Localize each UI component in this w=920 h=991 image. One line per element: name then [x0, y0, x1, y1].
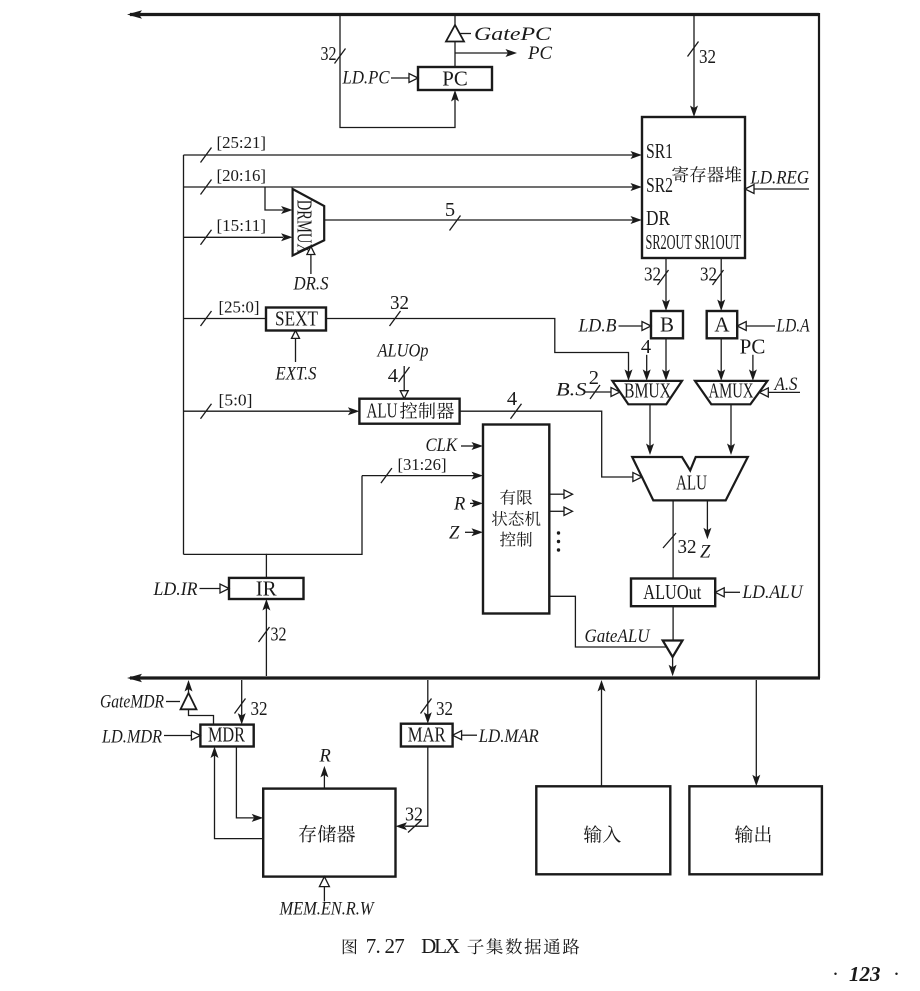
- svg-text:R: R: [319, 747, 331, 767]
- svg-text:32: 32: [700, 264, 717, 286]
- bus width 32 label at PC input: [335, 49, 346, 64]
- wire IR fields left rail: [183, 155, 185, 554]
- svg-text:DLX: DLX: [421, 934, 460, 958]
- svg-text:32: 32: [699, 46, 716, 68]
- svg-text:[5:0]: [5:0]: [219, 391, 253, 410]
- wire B.S control: [584, 391, 611, 393]
- svg-text:32: 32: [644, 264, 661, 286]
- svg-text:32: 32: [271, 624, 287, 646]
- wire input device to bus: [601, 687, 603, 786]
- svg-text:DR: DR: [646, 206, 670, 230]
- svg-text:SR2OUT SR1OUT: SR2OUT SR1OUT: [646, 230, 742, 254]
- wire BMUX to ALU: [649, 404, 651, 448]
- svg-text:[31:26]: [31:26]: [398, 455, 447, 474]
- svg-text:ALU: ALU: [676, 471, 707, 495]
- unit ALU controller ALU控制器: [359, 399, 459, 424]
- svg-text:R: R: [453, 495, 465, 515]
- svg-text:A: A: [714, 313, 730, 337]
- wire ALUOp control (4): [403, 366, 405, 391]
- svg-text:LD.MDR: LD.MDR: [101, 728, 162, 748]
- svg-text:LD.IR: LD.IR: [153, 580, 198, 600]
- svg-text:PC: PC: [740, 335, 766, 359]
- wire LD.MDR control: [164, 735, 191, 737]
- svg-text:7. 27: 7. 27: [366, 934, 405, 958]
- gate driver GateMDR triangle: [181, 693, 197, 709]
- register MAR: [401, 724, 453, 747]
- wire LD.ALU control: [724, 591, 740, 593]
- svg-text:2: 2: [589, 367, 599, 389]
- svg-text:LD.PC: LD.PC: [342, 69, 390, 89]
- svg-text:SEXT: SEXT: [275, 307, 318, 331]
- wire ALU to ALUOut (32): [672, 500, 674, 578]
- svg-text:32: 32: [390, 292, 409, 314]
- wire PC to AMUX: [752, 355, 754, 374]
- register A: [707, 311, 738, 338]
- wire bus to MDR (32): [241, 680, 243, 718]
- svg-text:[20:16]: [20:16]: [217, 166, 267, 185]
- wire bus to MAR (32): [427, 680, 429, 717]
- svg-text:[15:11]: [15:11]: [217, 216, 267, 235]
- svg-text:32: 32: [251, 698, 268, 720]
- mux AMUX: [695, 381, 767, 404]
- svg-text:MAR: MAR: [408, 723, 446, 747]
- svg-text:LD.ALU: LD.ALU: [742, 583, 804, 603]
- svg-text:GatePC: GatePC: [474, 25, 552, 45]
- wire [5:0] to ALU controller: [184, 410, 351, 412]
- wire LD.B control: [619, 325, 643, 327]
- wire LD.PC control: [391, 77, 410, 79]
- svg-text:PC: PC: [527, 44, 553, 64]
- wire ALU controller to ALU (4): [460, 411, 633, 477]
- unit output device 输出: [689, 786, 822, 874]
- svg-text:ALUOut: ALUOut: [643, 580, 701, 604]
- svg-text:4: 4: [641, 336, 651, 358]
- wire PC output tap: [455, 52, 508, 54]
- svg-text:BMUX: BMUX: [624, 379, 671, 403]
- gate driver GatePC triangle: [446, 25, 464, 42]
- wire memory R output: [323, 773, 325, 789]
- svg-text:5: 5: [445, 199, 455, 221]
- wire SEXT to BMUX (32): [326, 319, 629, 375]
- register IR: [229, 578, 304, 599]
- wire MEM.EN.R.W control: [323, 885, 325, 901]
- wire IR to [31:26]: [266, 476, 362, 555]
- wire GateMDR triangle to MDR: [189, 709, 214, 724]
- svg-text:PC: PC: [442, 67, 468, 91]
- wire MDR to memory: [236, 747, 254, 818]
- wire FSM GateALU signal: [549, 596, 666, 647]
- wire PC to GatePC to bus: [454, 16, 456, 26]
- unit SEXT: [266, 308, 326, 331]
- wire Z input: [465, 531, 474, 533]
- register file 寄存器堆: [642, 117, 745, 258]
- wire DR.S control: [310, 255, 312, 274]
- svg-text:B: B: [660, 313, 674, 337]
- svg-text:DRMUX: DRMUX: [293, 200, 317, 254]
- wire B to BMUX: [665, 338, 667, 374]
- wire [15:11] to DRMUX: [184, 236, 284, 238]
- wire SR2OUT to B (32): [665, 258, 667, 304]
- wire GateALU to bus: [672, 657, 674, 669]
- wire [25:0] to SEXT: [184, 318, 267, 320]
- gate driver GateALU triangle: [663, 641, 683, 658]
- wire [20:16] branch to DRMUX: [265, 187, 283, 210]
- svg-text:32: 32: [678, 536, 697, 558]
- wire bus to IR (32): [265, 606, 267, 676]
- wire LD.A control: [746, 325, 775, 327]
- unit memory 存储器: [263, 789, 395, 877]
- wire AMUX to ALU: [730, 404, 732, 448]
- svg-text:ALUOp: ALUOp: [376, 342, 429, 362]
- wire FSM control output 1: [549, 493, 564, 495]
- svg-text:ALU: ALU: [367, 399, 398, 423]
- wire ALUOut to GateALU: [672, 606, 674, 645]
- register PC: [418, 67, 492, 90]
- svg-text:4: 4: [507, 388, 517, 410]
- svg-text:EXT.S: EXT.S: [275, 365, 317, 385]
- wire bus to register file (32): [693, 16, 695, 110]
- wire FSM control output 2: [549, 510, 564, 512]
- svg-text:[25:0]: [25:0]: [219, 298, 260, 317]
- wire IR to field rail: [184, 554, 267, 578]
- wire constant 4 to BMUX: [646, 355, 648, 374]
- wire LD.MAR control: [462, 734, 478, 736]
- wire right frame (bus loop right side): [818, 13, 820, 678]
- svg-text:LD.REG: LD.REG: [750, 169, 809, 189]
- wire A.S control: [768, 391, 800, 393]
- svg-text:B.S: B.S: [556, 381, 587, 401]
- wire LD.IR control: [200, 588, 221, 590]
- bus width 32 label at register file input: [688, 42, 699, 57]
- svg-text:SR1: SR1: [646, 139, 673, 163]
- alu ALU: [632, 457, 748, 500]
- mux DRMUX: [293, 189, 325, 256]
- svg-text:32: 32: [321, 43, 337, 65]
- FSM more outputs dots: [557, 531, 560, 534]
- svg-text:Z: Z: [449, 524, 460, 544]
- svg-text:GateMDR: GateMDR: [100, 693, 164, 713]
- wire CLK input: [461, 445, 474, 447]
- wire MAR to memory (32): [405, 747, 428, 827]
- svg-text:Z: Z: [700, 543, 711, 563]
- svg-text:32: 32: [405, 804, 423, 826]
- wire bus to output device: [755, 680, 757, 779]
- svg-text:123: 123: [849, 962, 881, 986]
- wire LD.REG control: [753, 188, 809, 190]
- svg-text:·: ·: [832, 962, 839, 986]
- wire SR1OUT to A (32): [720, 258, 722, 304]
- bus bottom (system bus): [130, 676, 820, 679]
- wire DRMUX to DR (5): [324, 219, 633, 221]
- svg-text:LD.B: LD.B: [578, 317, 617, 337]
- svg-text:GateALU: GateALU: [585, 627, 651, 647]
- svg-text:MDR: MDR: [208, 723, 245, 747]
- svg-text:4: 4: [388, 365, 398, 387]
- svg-text:IR: IR: [256, 577, 277, 601]
- wire memory to MDR: [215, 754, 264, 839]
- wire R input: [470, 502, 474, 504]
- register ALUOut: [631, 579, 715, 607]
- svg-text:·: ·: [893, 962, 900, 986]
- svg-text:32: 32: [436, 698, 453, 720]
- wire A to AMUX: [720, 338, 722, 374]
- svg-text:SR2: SR2: [646, 173, 673, 197]
- wire GateMDR tick: [166, 701, 180, 703]
- svg-text:LD.MAR: LD.MAR: [478, 727, 539, 747]
- svg-text:DR.S: DR.S: [293, 275, 329, 295]
- svg-text:[25:21]: [25:21]: [217, 133, 267, 152]
- unit finite state machine control 有限状态机控制: [483, 425, 549, 614]
- register MDR: [200, 725, 253, 747]
- unit input device 输入: [536, 786, 670, 874]
- wire GateMDR to bus: [188, 687, 190, 693]
- bus top (system bus): [130, 13, 819, 16]
- svg-text:MEM.EN.R.W: MEM.EN.R.W: [279, 900, 375, 920]
- wire [20:16] to SR2: [184, 186, 634, 188]
- register B: [651, 311, 683, 338]
- svg-text:CLK: CLK: [426, 436, 459, 456]
- wire ALU Z flag: [706, 500, 708, 532]
- mux BMUX: [612, 381, 682, 404]
- wire [31:26] to FSM: [362, 475, 474, 477]
- svg-text:AMUX: AMUX: [709, 379, 754, 403]
- wire bus to PC input (32): [340, 16, 455, 128]
- wire EXT.S control: [295, 338, 297, 362]
- caption 图 7.27 DLX 子集数据通路: [343, 939, 357, 954]
- wire [25:21] to SR1: [184, 154, 634, 156]
- svg-text:LD.A: LD.A: [776, 317, 810, 337]
